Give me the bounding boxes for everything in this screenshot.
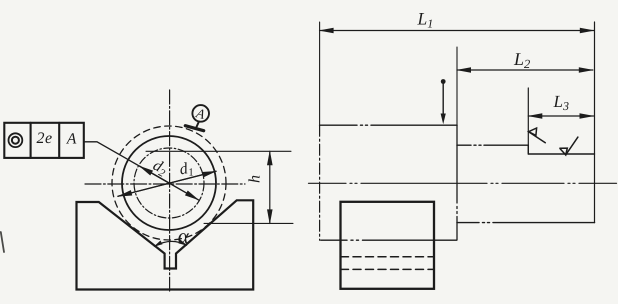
svg-text:L1: L1 <box>417 9 434 31</box>
svg-text:L3: L3 <box>553 92 569 113</box>
svg-text:d1: d1 <box>178 159 195 180</box>
svg-text:h: h <box>247 175 264 183</box>
svg-text:L2: L2 <box>513 49 530 71</box>
svg-text:d2: d2 <box>149 157 170 180</box>
svg-text:α: α <box>178 224 190 248</box>
svg-text:2e: 2e <box>36 130 52 147</box>
svg-text:A: A <box>66 130 77 147</box>
